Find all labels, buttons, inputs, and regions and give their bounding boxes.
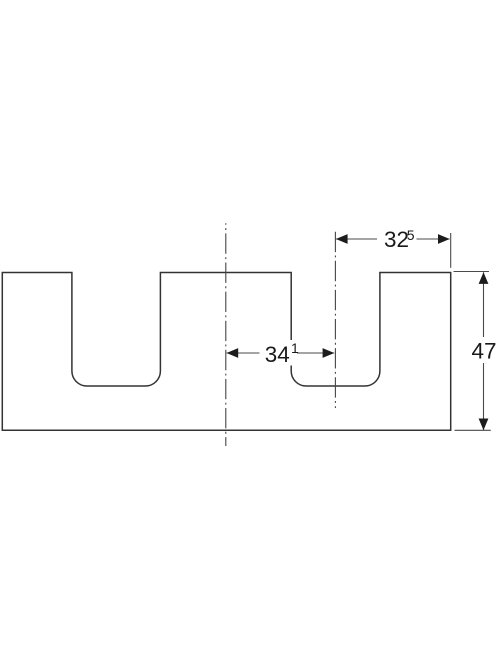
text mask 34.1 (also breaks cutout wall) (260, 340, 298, 366)
arrowhead 32.5 right (438, 234, 450, 244)
dimension line 47 (483, 272, 485, 430)
svg-text:5: 5 (407, 227, 415, 243)
arrowhead 34.1 right (323, 348, 335, 358)
arrowhead 47 down (479, 419, 489, 431)
centerline of countertop (dash-dot) (225, 223, 227, 446)
svg-text:47: 47 (472, 338, 496, 363)
dimension line 32.5 (336, 238, 450, 240)
text mask 47 (471, 337, 496, 363)
countertop outline with two U cutouts (2, 273, 450, 431)
svg-text:1: 1 (291, 340, 299, 356)
arrowhead 34.1 left (227, 348, 239, 358)
extension line for 47 (top) (454, 271, 490, 273)
svg-text:32: 32 (384, 227, 409, 252)
arrowhead 47 up (479, 272, 489, 284)
text mask 32.5 (377, 229, 417, 249)
centerline of right cutout (dash-dot) (334, 232, 336, 408)
extension line at right edge (top, for 32.5) (450, 233, 452, 268)
dimension line 34.1 (227, 352, 335, 354)
svg-text:34: 34 (265, 342, 290, 367)
arrowhead 32.5 left (336, 234, 348, 244)
extension line for 47 (bottom) (455, 429, 491, 431)
